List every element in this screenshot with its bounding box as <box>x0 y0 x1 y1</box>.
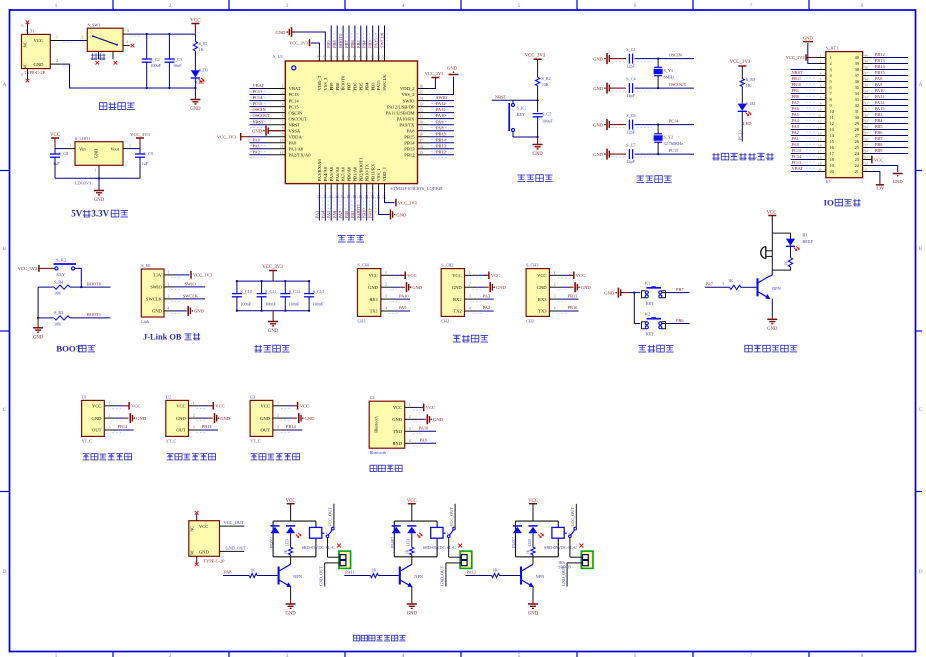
svg-text:STM32F103C8T6_LQFP48: STM32F103C8T6_LQFP48 <box>390 186 443 191</box>
svg-text:PC13: PC13 <box>253 89 264 94</box>
svg-text:5V: 5V <box>71 209 83 219</box>
svg-text:30: 30 <box>864 114 868 118</box>
svg-text:40: 40 <box>365 55 369 59</box>
svg-text:GND: GND <box>593 86 604 91</box>
svg-text:S_CH1: S_CH1 <box>358 262 370 267</box>
svg-text:BOOT1: BOOT1 <box>356 204 361 218</box>
svg-text:LED: LED <box>743 121 751 126</box>
svg-text:1K: 1K <box>405 549 409 554</box>
svg-text:1: 1 <box>109 401 111 405</box>
svg-text:Bluetooth: Bluetooth <box>374 415 379 432</box>
svg-text:GND: GND <box>199 549 209 554</box>
svg-text:OUT: OUT <box>261 428 271 433</box>
svg-text:1uF: 1uF <box>142 161 149 166</box>
svg-text:2: 2 <box>82 35 84 39</box>
svg-text:PB11: PB11 <box>368 209 373 219</box>
svg-text:PB13: PB13 <box>875 58 886 63</box>
svg-text:VDD_2: VDD_2 <box>400 86 415 91</box>
svg-text:31: 31 <box>864 108 868 112</box>
svg-text:32: 32 <box>855 103 859 108</box>
svg-text:VDDA: VDDA <box>289 134 303 139</box>
svg-text:GND: GND <box>604 290 615 295</box>
svg-text:VCC: VCC <box>190 18 201 24</box>
svg-text:OSCIN: OSCIN <box>289 110 303 115</box>
svg-text:PA1: PA1 <box>792 136 799 141</box>
svg-text:SWIO: SWIO <box>150 285 162 290</box>
svg-text:PC14: PC14 <box>253 95 264 100</box>
svg-text:100uF: 100uF <box>542 119 553 124</box>
svg-text:JK3: JK3 <box>558 561 564 565</box>
svg-text:PA10/RX: PA10/RX <box>397 116 415 121</box>
svg-text:1K: 1K <box>199 47 204 52</box>
svg-text:OSCIN: OSCIN <box>253 107 267 112</box>
svg-text:1N4007: 1N4007 <box>512 537 516 549</box>
svg-text:PB8: PB8 <box>332 40 337 48</box>
svg-text:1: 1 <box>56 35 58 39</box>
svg-text:GND: GND <box>433 417 444 422</box>
svg-text:RX1: RX1 <box>369 297 378 302</box>
svg-text:9: 9 <box>282 133 284 137</box>
svg-text:1: 1 <box>168 271 170 275</box>
svg-text:IO: IO <box>826 179 831 184</box>
svg-text:S_BT1: S_BT1 <box>826 46 838 51</box>
svg-text:PA2: PA2 <box>483 305 490 310</box>
svg-text:39: 39 <box>855 61 859 66</box>
svg-text:1: 1 <box>55 3 58 9</box>
svg-text:PB10: PB10 <box>568 305 579 310</box>
svg-text:PB13: PB13 <box>404 147 415 152</box>
svg-text:8: 8 <box>861 3 864 9</box>
svg-text:3.3V: 3.3V <box>91 209 109 219</box>
svg-text:47: 47 <box>324 55 328 59</box>
svg-text:PA8: PA8 <box>407 128 415 133</box>
svg-text:SRD-05: SRD-05 <box>558 566 571 570</box>
svg-text:2: 2 <box>830 61 832 66</box>
svg-text:16: 16 <box>818 144 822 148</box>
svg-text:NC: NC <box>190 549 195 555</box>
svg-text:VCC: VCC <box>199 524 208 529</box>
svg-text:7: 7 <box>282 121 284 125</box>
svg-text:2: 2 <box>282 91 284 95</box>
svg-text:SWIO: SWIO <box>403 98 415 103</box>
svg-text:31: 31 <box>420 115 424 119</box>
svg-text:1: 1 <box>282 85 284 89</box>
svg-text:32: 32 <box>864 102 868 106</box>
svg-text:23: 23 <box>855 157 859 162</box>
svg-text:12pF: 12pF <box>626 64 635 69</box>
svg-text:14: 14 <box>818 132 822 136</box>
svg-text:PB1/A0: PB1/A0 <box>353 166 358 182</box>
svg-text:9: 9 <box>830 103 832 108</box>
svg-text:PA11: PA11 <box>345 570 354 575</box>
svg-text:2: 2 <box>820 60 822 64</box>
svg-text:12: 12 <box>818 120 822 124</box>
svg-text:PA0: PA0 <box>289 141 297 146</box>
svg-text:GND: GND <box>412 285 423 290</box>
svg-text:VCC_3V3: VCC_3V3 <box>786 55 806 60</box>
svg-text:PB3: PB3 <box>368 40 373 48</box>
svg-text:VCC: VCC <box>34 38 43 43</box>
svg-text:S_R5: S_R5 <box>54 310 63 315</box>
svg-text:PB12: PB12 <box>436 149 446 154</box>
svg-text:VCC_3V3: VCC_3V3 <box>193 273 213 278</box>
svg-text:SRD-05VDC-SL-C: SRD-05VDC-SL-C <box>544 545 577 550</box>
svg-text:Link: Link <box>141 319 150 324</box>
svg-text:S_C12: S_C12 <box>289 289 300 294</box>
svg-text:PA15: PA15 <box>875 106 885 111</box>
svg-text:PA10: PA10 <box>875 88 885 93</box>
svg-text:PB6: PB6 <box>353 82 358 91</box>
svg-text:100nF: 100nF <box>265 301 276 306</box>
svg-text:VCC: VCC <box>874 157 883 162</box>
svg-text:SWCLK: SWCLK <box>382 74 387 91</box>
svg-text:PB10: PB10 <box>362 208 367 219</box>
svg-text:Vin: Vin <box>79 147 86 152</box>
svg-text:3: 3 <box>109 426 111 430</box>
svg-text:PB7: PB7 <box>344 40 349 48</box>
svg-text:PB4: PB4 <box>875 118 883 123</box>
svg-text:OSCOUT: OSCOUT <box>289 116 308 121</box>
svg-text:GND: GND <box>34 62 45 67</box>
svg-text:S_R1: S_R1 <box>199 41 208 46</box>
svg-text:TYPE-C-2P: TYPE-C-2P <box>204 559 226 564</box>
svg-text:NRST: NRST <box>495 95 507 100</box>
svg-text:PB9: PB9 <box>875 148 883 153</box>
svg-text:PB5: PB5 <box>358 82 363 91</box>
svg-text:PA3: PA3 <box>483 293 491 298</box>
svg-text:VCC: VCC <box>491 273 500 278</box>
svg-text:28: 28 <box>855 127 859 132</box>
svg-text:PB0: PB0 <box>344 210 349 218</box>
svg-text:3: 3 <box>193 426 195 430</box>
svg-text:GND: GND <box>452 285 463 290</box>
svg-text:GND: GND <box>396 212 407 217</box>
svg-text:1K: 1K <box>284 549 288 554</box>
svg-text:33: 33 <box>855 97 859 102</box>
svg-text:3: 3 <box>69 143 71 147</box>
svg-text:VCC_3V3: VCC_3V3 <box>289 41 309 46</box>
svg-text:3: 3 <box>168 295 170 299</box>
svg-text:1K: 1K <box>371 568 376 573</box>
svg-text:VCC_OUT: VCC_OUT <box>224 520 245 525</box>
svg-text:SWCLK: SWCLK <box>146 297 163 302</box>
svg-text:PA7: PA7 <box>338 210 343 218</box>
svg-text:SWIO: SWIO <box>436 95 447 100</box>
svg-text:1: 1 <box>277 401 279 405</box>
svg-text:SWIO: SWIO <box>185 281 196 286</box>
svg-text:PA9: PA9 <box>875 82 883 87</box>
svg-text:5: 5 <box>518 653 521 657</box>
svg-text:S_C10: S_C10 <box>240 289 251 294</box>
svg-text:1K: 1K <box>728 278 733 283</box>
svg-text:K2: K2 <box>645 311 650 316</box>
svg-text:48: 48 <box>318 55 322 59</box>
svg-text:10: 10 <box>818 108 822 112</box>
svg-text:GND: GND <box>593 122 604 127</box>
svg-text:GND: GND <box>252 129 263 134</box>
svg-text:KEY: KEY <box>646 301 655 306</box>
svg-text:PB11/RX: PB11/RX <box>370 163 375 181</box>
svg-text:PA3: PA3 <box>792 124 800 129</box>
svg-text:GND: GND <box>94 198 105 203</box>
svg-text:38: 38 <box>377 55 381 59</box>
svg-text:VCC: VCC <box>176 404 185 409</box>
svg-text:GND_OUT: GND_OUT <box>226 546 247 551</box>
svg-text:PB11: PB11 <box>568 293 578 298</box>
svg-text:PA11: PA11 <box>875 94 884 99</box>
svg-text:IO: IO <box>824 198 834 208</box>
svg-text:S_C2: S_C2 <box>150 57 159 62</box>
svg-text:S_SW1: S_SW1 <box>88 22 101 27</box>
svg-text:19: 19 <box>818 162 822 166</box>
svg-text:LED: LED <box>196 80 204 85</box>
svg-text:PA1: PA1 <box>253 143 260 148</box>
svg-text:PA7/A0: PA7/A0 <box>341 166 346 181</box>
svg-text:OUT: OUT <box>92 428 102 433</box>
svg-text:PB6: PB6 <box>875 130 883 135</box>
svg-text:PC15: PC15 <box>792 148 803 153</box>
svg-text:42: 42 <box>353 55 357 59</box>
svg-text:NPN: NPN <box>414 574 424 579</box>
svg-text:PB7: PB7 <box>347 82 352 91</box>
svg-text:PC13: PC13 <box>289 92 300 97</box>
svg-text:PA0: PA0 <box>253 137 261 142</box>
svg-text:PB10: PB10 <box>792 82 803 87</box>
svg-text:44: 44 <box>341 55 345 59</box>
svg-text:28: 28 <box>420 133 424 137</box>
svg-text:1: 1 <box>830 55 832 60</box>
svg-text:0: 0 <box>21 73 23 77</box>
svg-text:32: 32 <box>420 109 424 113</box>
svg-text:GND: GND <box>286 612 297 617</box>
svg-text:PC13: PC13 <box>737 129 742 140</box>
svg-text:VBAT: VBAT <box>792 166 804 171</box>
svg-text:25: 25 <box>420 151 424 155</box>
svg-text:3: 3 <box>554 295 556 299</box>
svg-text:22: 22 <box>864 162 868 166</box>
svg-text:S_D1: S_D1 <box>199 68 209 73</box>
svg-text:S_K1: S_K1 <box>517 106 527 111</box>
svg-text:4: 4 <box>820 72 822 76</box>
svg-text:PB7: PB7 <box>875 136 883 141</box>
svg-text:U1: U1 <box>82 394 87 399</box>
svg-text:30: 30 <box>420 121 424 125</box>
svg-text:S_C3: S_C3 <box>173 57 182 62</box>
svg-text:VCC: VCC <box>393 405 402 410</box>
svg-text:GND: GND <box>392 417 403 422</box>
svg-text:PB7: PB7 <box>676 287 684 292</box>
svg-text:PA5/A0: PA5/A0 <box>329 166 334 181</box>
svg-text:VCC_OUT: VCC_OUT <box>570 507 575 527</box>
svg-text:2: 2 <box>469 283 471 287</box>
svg-text:C: C <box>919 407 923 413</box>
svg-text:PA2: PA2 <box>253 149 260 154</box>
svg-text:35: 35 <box>864 84 868 88</box>
svg-text:B: B <box>3 246 7 252</box>
svg-text:27: 27 <box>420 139 424 143</box>
svg-text:100nF: 100nF <box>313 301 324 306</box>
svg-text:VSSA: VSSA <box>289 128 301 133</box>
svg-text:CH1: CH1 <box>358 318 366 323</box>
svg-text:6: 6 <box>820 84 822 88</box>
svg-text:1uF: 1uF <box>53 161 60 166</box>
svg-text:7: 7 <box>750 3 753 9</box>
svg-text:PC15: PC15 <box>253 101 264 106</box>
svg-text:2: 2 <box>277 414 279 418</box>
svg-text:1N4007: 1N4007 <box>270 537 274 549</box>
svg-text:22: 22 <box>855 163 859 168</box>
svg-text:U2: U2 <box>166 394 171 399</box>
svg-text:LED: LED <box>528 539 532 546</box>
svg-text:4: 4 <box>168 307 170 311</box>
svg-text:3: 3 <box>820 66 822 70</box>
svg-text:TX1: TX1 <box>370 309 379 314</box>
svg-text:4: 4 <box>554 307 556 311</box>
svg-text:GND: GND <box>268 329 279 334</box>
svg-text:2: 2 <box>193 414 195 418</box>
svg-text:12pF: 12pF <box>626 93 635 98</box>
svg-text:PB9: PB9 <box>326 40 331 48</box>
svg-text:TX3: TX3 <box>538 309 547 314</box>
svg-text:PB3: PB3 <box>370 82 375 91</box>
svg-text:37: 37 <box>864 72 868 76</box>
svg-text:SRD-05VDC-SL-C: SRD-05VDC-SL-C <box>423 545 456 550</box>
svg-text:D: D <box>3 569 7 575</box>
svg-text:26: 26 <box>864 138 868 142</box>
svg-text:BOOT0: BOOT0 <box>341 75 346 91</box>
svg-text:VCC: VCC <box>261 404 270 409</box>
svg-text:BOOT0: BOOT0 <box>338 33 343 48</box>
svg-text:S_R3: S_R3 <box>746 77 755 82</box>
svg-text:PB8: PB8 <box>335 82 340 91</box>
svg-text:S_R2: S_R2 <box>542 76 551 81</box>
svg-text:12: 12 <box>830 121 834 126</box>
svg-text:PA15: PA15 <box>376 80 381 91</box>
svg-text:PB14: PB14 <box>404 141 415 146</box>
svg-text:GND: GND <box>528 612 539 617</box>
svg-text:PA9/TX: PA9/TX <box>399 122 415 127</box>
svg-text:15: 15 <box>830 139 834 144</box>
svg-text:NC: NC <box>23 63 28 69</box>
svg-text:3: 3 <box>722 282 724 286</box>
svg-text:18: 18 <box>818 156 822 160</box>
svg-text:VCC_3V3: VCC_3V3 <box>525 54 546 59</box>
svg-text:4: 4 <box>126 40 128 44</box>
svg-text:3: 3 <box>127 29 129 33</box>
svg-text:D: D <box>919 569 923 575</box>
svg-text:12pF: 12pF <box>626 130 635 135</box>
svg-text:PA0: PA0 <box>792 142 800 147</box>
svg-text:6: 6 <box>282 115 284 119</box>
svg-text:1K: 1K <box>527 549 531 554</box>
svg-text:19: 19 <box>830 163 834 168</box>
svg-text:3: 3 <box>282 97 284 101</box>
svg-text:GND_OUT: GND_OUT <box>440 566 445 586</box>
svg-text:PA10: PA10 <box>436 113 446 118</box>
svg-text:13: 13 <box>830 127 834 132</box>
svg-text:Vout: Vout <box>110 147 119 152</box>
svg-text:100nF: 100nF <box>240 301 251 306</box>
svg-text:1: 1 <box>469 271 471 275</box>
svg-text:12: 12 <box>280 151 284 155</box>
svg-text:34: 34 <box>864 90 868 94</box>
svg-text:21: 21 <box>864 168 868 172</box>
svg-text:S_K2: S_K2 <box>56 257 66 262</box>
svg-text:32.768KHz: 32.768KHz <box>664 141 684 146</box>
svg-text:LDO3V3: LDO3V3 <box>75 181 91 186</box>
svg-text:GND: GND <box>33 335 44 340</box>
svg-text:S_C4: S_C4 <box>626 77 636 82</box>
svg-text:VCC_3V3: VCC_3V3 <box>217 134 237 139</box>
svg-text:2: 2 <box>168 283 170 287</box>
svg-text:4: 4 <box>469 307 471 311</box>
svg-text:GND: GND <box>194 309 205 314</box>
svg-text:KEY: KEY <box>56 272 65 277</box>
svg-text:PA8: PA8 <box>875 76 883 81</box>
svg-text:PB10/TX: PB10/TX <box>364 163 369 181</box>
svg-text:PC14: PC14 <box>669 118 680 123</box>
svg-text:3: 3 <box>830 67 832 72</box>
svg-text:PB1: PB1 <box>792 88 800 93</box>
svg-text:1N4007: 1N4007 <box>391 537 395 549</box>
svg-text:PA4/A0: PA4/A0 <box>323 166 328 181</box>
svg-text:PA11: PA11 <box>436 107 445 112</box>
svg-text:PA9: PA9 <box>420 438 428 443</box>
svg-text:PA6: PA6 <box>792 106 800 111</box>
svg-text:PB14: PB14 <box>286 424 297 429</box>
svg-text:2: 2 <box>109 414 111 418</box>
svg-text:1: 1 <box>820 54 822 58</box>
svg-text:5: 5 <box>282 109 284 113</box>
svg-text:27: 27 <box>864 132 868 136</box>
svg-text:12pF: 12pF <box>626 159 635 164</box>
svg-text:11: 11 <box>818 114 822 118</box>
svg-text:OSCOUT: OSCOUT <box>253 113 271 118</box>
svg-text:KEY: KEY <box>517 112 526 117</box>
svg-text:43: 43 <box>347 55 351 59</box>
svg-text:PB1: PB1 <box>350 211 355 219</box>
svg-text:KEY: KEY <box>646 332 655 337</box>
svg-text:LED: LED <box>285 539 289 546</box>
svg-text:25: 25 <box>855 145 859 150</box>
svg-text:PA4: PA4 <box>320 210 325 218</box>
svg-text:PB9: PB9 <box>329 82 334 91</box>
svg-text:PA7: PA7 <box>792 100 800 105</box>
svg-text:GND: GND <box>407 612 418 617</box>
svg-text:TX2: TX2 <box>453 309 462 314</box>
svg-text:31: 31 <box>855 109 859 114</box>
svg-text:13: 13 <box>818 126 822 130</box>
svg-text:S_H1: S_H1 <box>141 263 151 268</box>
svg-text:VCC: VCC <box>215 404 224 409</box>
svg-text:4: 4 <box>402 3 405 9</box>
svg-text:38: 38 <box>855 67 859 72</box>
svg-text:33: 33 <box>864 96 868 100</box>
svg-text:GND: GND <box>803 35 814 40</box>
svg-text:PA10: PA10 <box>419 426 429 431</box>
svg-text:5: 5 <box>830 79 832 84</box>
svg-text:PB13: PB13 <box>202 424 213 429</box>
svg-text:1: 1 <box>409 403 411 407</box>
svg-text:VSS_3: VSS_3 <box>323 77 328 91</box>
svg-text:9: 9 <box>820 102 822 106</box>
svg-text:NRST: NRST <box>289 122 301 127</box>
svg-text:PC14: PC14 <box>289 98 300 103</box>
svg-text:YT_C: YT_C <box>250 438 261 443</box>
svg-text:1K: 1K <box>250 568 255 573</box>
svg-text:S_C6: S_C6 <box>626 113 635 118</box>
svg-text:PA12: PA12 <box>875 100 885 105</box>
